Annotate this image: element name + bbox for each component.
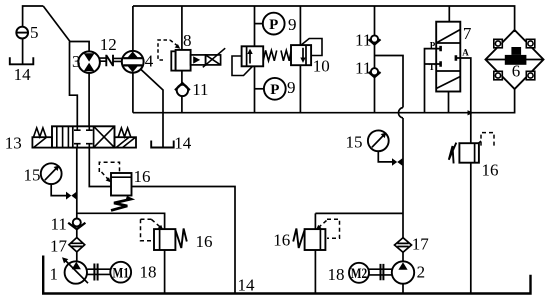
svg-text:1: 1 (50, 265, 59, 284)
svg-text:P: P (270, 82, 279, 98)
svg-text:11: 11 (192, 80, 208, 99)
svg-text:17: 17 (50, 237, 68, 256)
svg-text:11: 11 (355, 31, 371, 50)
wire valve13 right port to relief 16 mid (89, 148, 111, 187)
svg-text:M2: M2 (351, 266, 368, 282)
wire suction diagonal (43, 6, 70, 42)
wire valve7 A port (460, 58, 471, 143)
gauge shutoff left (66, 192, 77, 200)
tank bottom rail (43, 256, 530, 294)
top rail (133, 6, 515, 32)
wire 16 bottom-left to tank rail (164, 250, 166, 294)
return rail (mid horizontal) (133, 89, 515, 113)
svg-text:16: 16 (134, 167, 151, 186)
coupling motor M2 pump2 (369, 264, 392, 280)
svg-text:8: 8 (183, 31, 192, 50)
flow arrow at junction (468, 110, 474, 115)
crossover relief valve left (232, 46, 277, 75)
wire 16 mid outlet to tank 14 (132, 187, 236, 294)
wire pump2 to tank rail (402, 284, 404, 294)
wire left supply horizontal (77, 213, 165, 229)
motor M1 (110, 262, 131, 283)
proportional valve 7 (436, 22, 460, 92)
coupling pump1 motor M1 (88, 264, 111, 281)
svg-text:9: 9 (287, 78, 296, 97)
pressure gauge 9 bottom (255, 78, 286, 100)
wire right supply horizontal (315, 213, 403, 229)
svg-text:14: 14 (174, 134, 192, 153)
relief valve 16 bottom left (141, 219, 187, 250)
svg-text:16: 16 (196, 232, 213, 251)
svg-text:17: 17 (412, 235, 430, 254)
wire 16 right to tank rail (470, 163, 472, 294)
svg-text:18: 18 (328, 265, 345, 284)
directional valve 13 body (52, 126, 115, 147)
wire relief10 line (299, 6, 301, 113)
filter 17 left (69, 238, 85, 252)
svg-text:13: 13 (5, 134, 22, 153)
pump 1 variable (62, 257, 88, 283)
check valve 11 bottom left (68, 219, 85, 230)
relief valve 16 bottom right (293, 219, 339, 250)
wire branch to pump2 line with crossover hop (375, 56, 404, 262)
svg-text:11: 11 (355, 59, 371, 78)
svg-text:6: 6 (512, 62, 521, 81)
coupling 12 (100, 55, 123, 67)
relief valve 16 right column (449, 133, 494, 164)
wire valve8 top (181, 6, 183, 50)
pressure gauge 9 top (255, 13, 285, 35)
svg-text:15: 15 (24, 166, 41, 185)
breather 5 (16, 27, 28, 39)
wire valve7 top (448, 6, 450, 22)
valve 13 right solenoid (115, 128, 137, 148)
wire suction horizontal to pump 3 (70, 42, 90, 52)
svg-text:10: 10 (313, 57, 330, 76)
svg-text:5: 5 (30, 23, 39, 42)
wire pump4 bottom to return rail (132, 73, 134, 113)
wire top-left tank riser (23, 6, 44, 65)
tank 14 mid (151, 141, 174, 148)
wire valve13 left port down (76, 148, 78, 262)
wire pump4 suction to tank 14 mid (141, 69, 163, 147)
wire relief left line (254, 6, 256, 113)
filter 17 right (395, 238, 412, 253)
svg-text:A: A (462, 47, 469, 57)
wire makeup check line (374, 6, 376, 113)
check valve 11 lower right (369, 68, 381, 77)
wire pump4 top to rail (132, 6, 134, 51)
svg-text:14: 14 (238, 276, 256, 295)
svg-text:7: 7 (463, 24, 472, 43)
svg-text:11: 11 (51, 215, 67, 234)
check valve 11 under valve 8 (175, 83, 190, 96)
pump 3 (hydraulic motor circle) (78, 51, 100, 73)
pressure gauge 15 left (41, 163, 66, 195)
svg-text:15: 15 (346, 133, 363, 152)
svg-text:16: 16 (482, 161, 499, 180)
svg-text:18: 18 (140, 263, 157, 282)
wire valve8 bottom (181, 71, 183, 113)
svg-text:2: 2 (417, 263, 426, 282)
svg-text:14: 14 (14, 65, 32, 84)
relief valve 16 mid (99, 162, 131, 210)
valve 13 left solenoid (32, 128, 52, 148)
wire 16 bottom-right to tank rail (314, 250, 316, 294)
wire pump3 to valve 13 (88, 73, 90, 126)
wire valve7 bottom (448, 92, 450, 113)
svg-text:12: 12 (100, 35, 117, 54)
svg-text:P: P (269, 17, 278, 33)
svg-text:9: 9 (288, 15, 297, 34)
pressure gauge 15 right (368, 130, 392, 161)
svg-text:4: 4 (145, 52, 154, 71)
bridge rectifier 6 (486, 30, 544, 89)
gauge shutoff right (392, 158, 402, 166)
solenoid valve 8 (158, 40, 225, 71)
crossover relief valve 10 (281, 39, 322, 66)
pump 4 (charge pump) (122, 51, 144, 73)
wire tank branch down to valve 13 (70, 42, 78, 127)
motor M2 (349, 263, 369, 283)
tank 14 top-left (10, 57, 34, 64)
svg-text:3: 3 (72, 52, 81, 71)
svg-text:16: 16 (273, 230, 290, 249)
svg-text:M1: M1 (112, 266, 129, 282)
check valve 11 upper right (369, 35, 381, 44)
pump 2 (392, 261, 414, 283)
wire valve7 P T drain (425, 49, 437, 113)
